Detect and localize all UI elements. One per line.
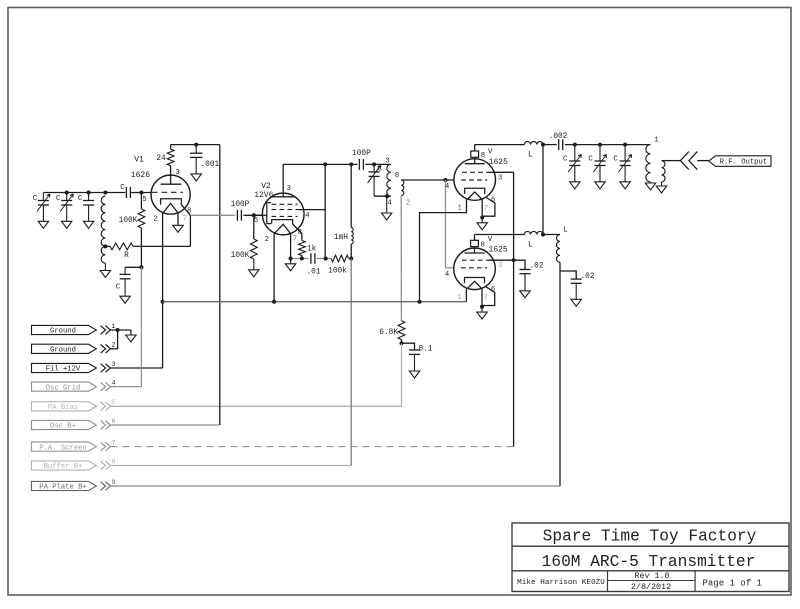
svg-text:P.A. Screen: P.A. Screen [39, 444, 86, 452]
svg-text:Page 1 of 1: Page 1 of 1 [703, 578, 762, 588]
svg-text:Osc B+: Osc B+ [50, 423, 76, 431]
svg-text:7: 7 [484, 294, 488, 302]
svg-text:100K: 100K [119, 217, 138, 225]
svg-text:8: 8 [481, 242, 485, 250]
svg-text:C: C [56, 195, 61, 203]
svg-text:2: 2 [154, 216, 158, 224]
svg-text:V: V [488, 236, 493, 244]
svg-text:160M ARC-5 Transmitter: 160M ARC-5 Transmitter [542, 553, 756, 571]
svg-text:6.8K: 6.8K [379, 329, 398, 337]
svg-text:C: C [33, 195, 38, 203]
svg-text:100P: 100P [352, 150, 371, 158]
svg-text:1k: 1k [307, 246, 317, 254]
svg-text:C: C [120, 184, 125, 192]
svg-text:6: 6 [491, 286, 495, 294]
svg-text:Spare Time Toy Factory: Spare Time Toy Factory [543, 527, 757, 545]
svg-text:C: C [613, 156, 618, 164]
svg-text:2: 2 [265, 236, 269, 244]
svg-text:24: 24 [156, 155, 166, 163]
svg-text:.02: .02 [530, 263, 544, 271]
svg-text:PA Bias: PA Bias [48, 404, 78, 412]
svg-text:R.F. Output: R.F. Output [720, 159, 767, 167]
svg-text:C: C [378, 166, 382, 174]
svg-text:.002: .002 [549, 133, 568, 141]
svg-text:2/8/2012: 2/8/2012 [631, 582, 671, 592]
svg-text:C: C [588, 156, 593, 164]
svg-text:Ground: Ground [50, 347, 76, 355]
svg-text:4: 4 [445, 271, 449, 279]
svg-text:.02: .02 [581, 273, 595, 281]
svg-text:7: 7 [293, 236, 297, 244]
svg-text:12V6: 12V6 [254, 191, 273, 200]
svg-text:3: 3 [498, 262, 502, 270]
svg-text:Buffer B+: Buffer B+ [44, 463, 83, 471]
svg-text:1mH: 1mH [334, 234, 348, 242]
svg-text:V1: V1 [134, 156, 144, 165]
svg-text:4: 4 [305, 212, 309, 220]
svg-text:1: 1 [457, 294, 461, 302]
svg-text:1625: 1625 [489, 246, 508, 255]
svg-text:Osc Grid: Osc Grid [46, 384, 81, 392]
svg-text:100k: 100k [328, 268, 347, 276]
svg-text:L: L [528, 152, 533, 160]
svg-text:3: 3 [498, 174, 502, 182]
svg-text:3: 3 [287, 185, 291, 193]
svg-text:5: 5 [254, 217, 258, 225]
svg-text:Fil +12V: Fil +12V [46, 366, 81, 374]
svg-text:V: V [488, 148, 493, 156]
svg-text:R: R [124, 252, 129, 260]
svg-text:8: 8 [187, 208, 191, 216]
svg-text:7: 7 [183, 216, 187, 224]
svg-text:C: C [78, 195, 83, 203]
svg-text:100K: 100K [231, 252, 250, 260]
svg-text:3: 3 [175, 169, 179, 177]
svg-text:PA Plate B+: PA Plate B+ [39, 484, 86, 492]
svg-text:Rev 1.0: Rev 1.0 [634, 571, 669, 581]
svg-text:0.1: 0.1 [419, 346, 433, 354]
svg-text:8: 8 [395, 172, 399, 180]
svg-text:100P: 100P [231, 201, 250, 209]
svg-text:C: C [116, 284, 121, 292]
svg-text:1626: 1626 [131, 171, 150, 180]
svg-text:4: 4 [387, 200, 391, 208]
svg-text:3: 3 [385, 158, 389, 166]
svg-text:1: 1 [458, 205, 462, 213]
svg-text:.01: .01 [306, 269, 320, 277]
svg-text:Ground: Ground [50, 328, 76, 336]
svg-text:8: 8 [481, 152, 485, 160]
svg-text:L: L [563, 227, 568, 235]
svg-text:5: 5 [142, 196, 146, 204]
svg-text:L: L [528, 242, 533, 250]
svg-text:6: 6 [491, 197, 495, 205]
svg-text:Mike Harrison KE0ZU: Mike Harrison KE0ZU [517, 579, 605, 587]
svg-text:V2: V2 [261, 182, 271, 191]
svg-text:.001: .001 [201, 161, 220, 169]
svg-text:2: 2 [406, 200, 410, 208]
svg-text:C: C [563, 156, 568, 164]
svg-text:4: 4 [445, 183, 449, 191]
svg-text:1: 1 [654, 137, 658, 145]
svg-text:1625: 1625 [489, 158, 508, 167]
svg-text:7: 7 [484, 205, 488, 213]
